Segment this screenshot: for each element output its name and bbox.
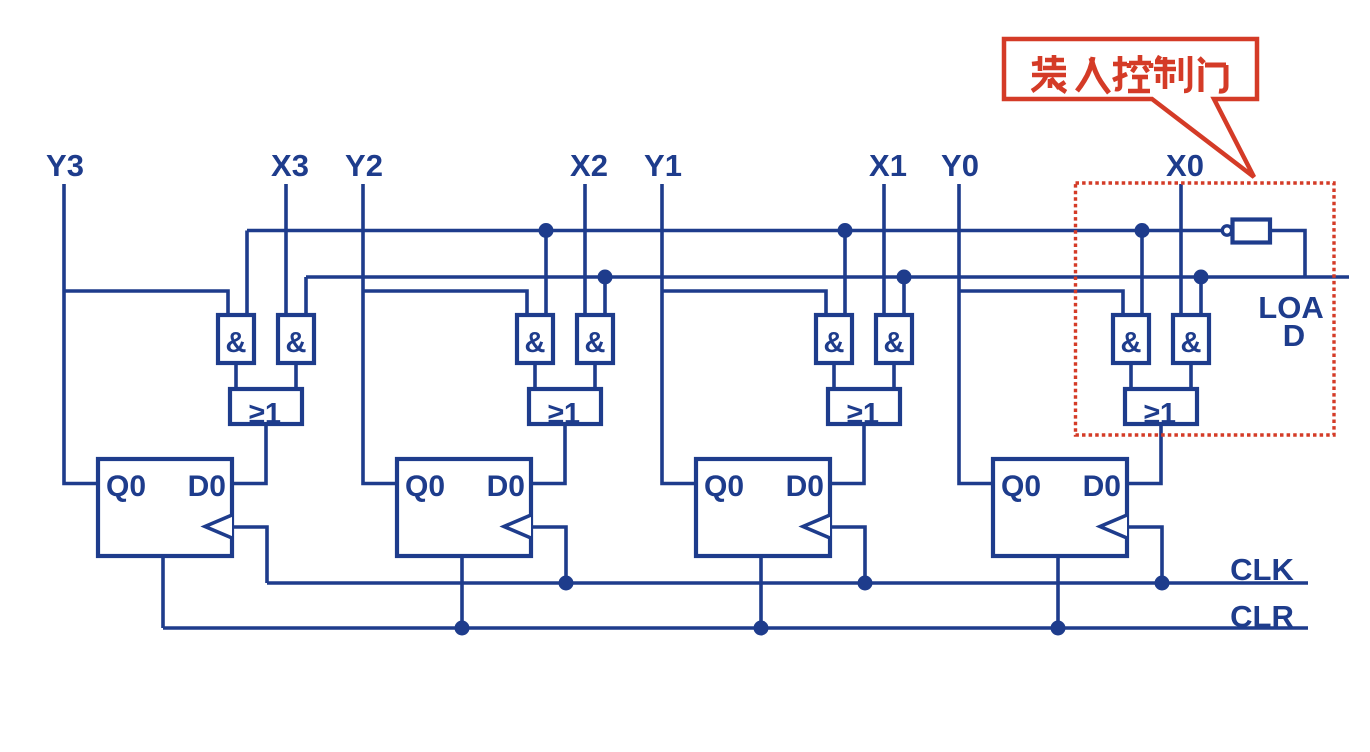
svg-text:X2: X2: [570, 148, 608, 183]
svg-text:Y2: Y2: [345, 148, 383, 183]
wire LOAD drop to load AND bit1: [902, 277, 906, 315]
svg-text:Q0: Q0: [704, 470, 744, 503]
svg-text:&: &: [525, 327, 546, 359]
wire Y3 feedback branch to AND: [64, 291, 228, 315]
svg-text:&: &: [884, 327, 905, 359]
svg-text:Y3: Y3: [46, 148, 84, 183]
OR gate bit3 box: [230, 389, 302, 424]
AND gate (load) bit0 box: [1173, 315, 1209, 363]
junction NLOAD bus bit1: [838, 223, 853, 238]
svg-text:Q0: Q0: [405, 470, 445, 503]
wire OR output to D0 bit0: [1127, 424, 1161, 484]
wire clock input FF0: [1127, 527, 1162, 583]
OR gate bit1 box: [828, 389, 900, 424]
OR gate bit2 box: [529, 389, 601, 424]
junction CLK bus bit0: [1155, 576, 1170, 591]
wire Y2 feedback branch to AND: [363, 291, 527, 315]
wire clock input FF2: [531, 527, 566, 583]
wire clear input FF3: [161, 556, 165, 628]
svg-text:CLR: CLR: [1230, 599, 1294, 634]
inverter bubble: [1222, 226, 1231, 235]
svg-text:&: &: [1181, 327, 1202, 359]
wire X0 input (vertical, to AND): [1179, 184, 1183, 315]
AND gate (hold) bit0 box: [1113, 315, 1149, 363]
wire hold-AND output bit0: [1129, 363, 1133, 389]
callout text glyph 制: [1154, 56, 1190, 91]
svg-text:&: &: [226, 327, 247, 359]
OR gate bit0 box: [1125, 389, 1197, 424]
svg-text:&: &: [1121, 327, 1142, 359]
junction LOAD bus bit2: [598, 270, 613, 285]
wire LOAD bus (lower horizontal): [306, 275, 1349, 279]
wire clear input FF1: [759, 556, 763, 628]
callout text glyph 装: [1032, 55, 1066, 92]
flip-flop FF2 clock triangle: [504, 515, 531, 538]
svg-text:X0: X0: [1166, 148, 1204, 183]
junction LOAD bus bit1: [897, 270, 912, 285]
callout text glyph 门: [1199, 58, 1226, 92]
wire hold-AND output bit1: [832, 363, 836, 389]
svg-text:&: &: [286, 327, 307, 359]
callout text glyph 控: [1113, 55, 1151, 91]
svg-text:X3: X3: [271, 148, 309, 183]
wire X1 input (vertical, to AND): [882, 184, 886, 315]
wire load-AND output bit0: [1189, 363, 1193, 389]
wire clear input FF2: [460, 556, 464, 628]
wire LOAD drop to load AND bit0: [1199, 277, 1203, 315]
AND gate (hold) bit2 box: [517, 315, 553, 363]
junction CLK bus bit2: [559, 576, 574, 591]
svg-text:Y0: Y0: [941, 148, 979, 183]
svg-text:D0: D0: [487, 470, 525, 503]
wire clock input FF3: [232, 527, 267, 583]
flip-flop FF3 clock triangle: [205, 515, 232, 538]
wire X3 input (vertical, to AND): [284, 184, 288, 315]
wire hold-AND output bit2: [533, 363, 537, 389]
wire LOAD drop to load AND bit3: [304, 277, 308, 315]
wire NLOAD drop to hold AND bit1: [843, 231, 847, 316]
wire Y0 feedback branch to AND: [959, 291, 1123, 315]
flip-flop FF0 box: [993, 459, 1127, 556]
inverter body: [1233, 220, 1271, 243]
svg-text:D0: D0: [188, 470, 226, 503]
AND gate (hold) bit3 box: [218, 315, 254, 363]
wire NLOAD drop to hold AND bit3: [245, 231, 249, 316]
wire Y0 output (vertical, to Q0 of FF0): [959, 184, 993, 484]
wire clock input FF1: [830, 527, 865, 583]
junction CLR bus bit1: [754, 621, 769, 636]
junction NLOAD bus bit2: [539, 223, 554, 238]
flip-flop FF0 clock triangle: [1100, 515, 1127, 538]
junction NLOAD bus bit0: [1135, 223, 1150, 238]
wire NLOAD drop to hold AND bit0: [1140, 231, 1144, 316]
callout text glyph 入: [1077, 57, 1109, 93]
junction CLR bus bit2: [455, 621, 470, 636]
wire Y1 output (vertical, to Q0 of FF1): [662, 184, 696, 484]
svg-text:CLK: CLK: [1230, 552, 1294, 587]
wire NLOAD drop to hold AND bit2: [544, 231, 548, 316]
wire Y3 output (vertical, to Q0 of FF3): [64, 184, 98, 484]
wire load-AND output bit3: [294, 363, 298, 389]
AND gate (load) bit2 box: [577, 315, 613, 363]
highlight box (load control gates): [1076, 183, 1335, 435]
junction CLK bus bit1: [858, 576, 873, 591]
junction CLR bus bit0: [1051, 621, 1066, 636]
svg-text:Q0: Q0: [1001, 470, 1041, 503]
wire X2 input (vertical, to AND): [583, 184, 587, 315]
svg-text:D0: D0: [786, 470, 824, 503]
svg-text:&: &: [824, 327, 845, 359]
junction LOAD bus bit0: [1194, 270, 1209, 285]
wire Y2 output (vertical, to Q0 of FF2): [363, 184, 397, 484]
svg-text:D: D: [1283, 318, 1305, 353]
AND gate (load) bit1 box: [876, 315, 912, 363]
callout balloon 装入控制门: [1004, 39, 1257, 177]
flip-flop FF3 box: [98, 459, 232, 556]
wire OR output to D0 bit2: [531, 424, 565, 484]
wire LOAD drop to load AND bit2: [603, 277, 607, 315]
svg-text:D0: D0: [1083, 470, 1121, 503]
wire Y1 feedback branch to AND: [662, 291, 826, 315]
svg-text:Q0: Q0: [106, 470, 146, 503]
wire inverter input from LOAD: [1270, 231, 1305, 278]
AND gate (load) bit3 box: [278, 315, 314, 363]
svg-text:Y1: Y1: [644, 148, 682, 183]
wire NLOAD bus (upper horizontal): [247, 229, 1222, 233]
AND gate (hold) bit1 box: [816, 315, 852, 363]
wire CLK bus: [267, 581, 1308, 585]
wire OR output to D0 bit3: [232, 424, 266, 484]
flip-flop FF2 box: [397, 459, 531, 556]
wire load-AND output bit1: [892, 363, 896, 389]
wire clear input FF0: [1056, 556, 1060, 628]
svg-text:X1: X1: [869, 148, 907, 183]
svg-text:&: &: [585, 327, 606, 359]
wire CLR bus: [163, 626, 1308, 630]
wire load-AND output bit2: [593, 363, 597, 389]
flip-flop FF1 clock triangle: [803, 515, 830, 538]
flip-flop FF1 box: [696, 459, 830, 556]
wire hold-AND output bit3: [234, 363, 238, 389]
wire OR output to D0 bit1: [830, 424, 864, 484]
